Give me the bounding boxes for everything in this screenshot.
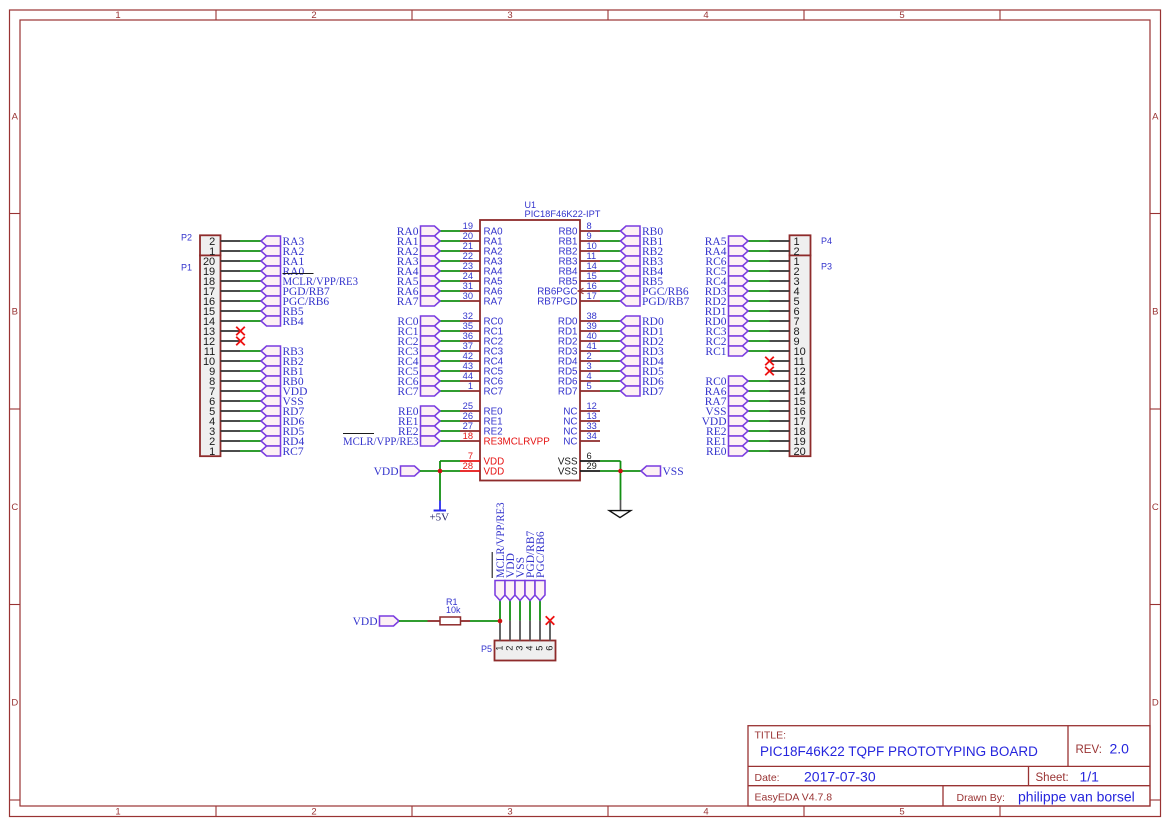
svg-text:P5: P5 <box>481 644 492 654</box>
svg-text:2: 2 <box>505 646 515 651</box>
svg-text:3: 3 <box>507 10 512 21</box>
svg-text:RA7: RA7 <box>484 297 503 308</box>
svg-text:38: 38 <box>587 311 597 321</box>
svg-text:A: A <box>1152 112 1159 123</box>
svg-text:4: 4 <box>703 10 708 21</box>
svg-text:32: 32 <box>463 311 473 321</box>
svg-text:2.0: 2.0 <box>1110 741 1130 757</box>
svg-text:41: 41 <box>587 341 597 351</box>
svg-text:34: 34 <box>587 431 597 441</box>
svg-text:Sheet:: Sheet: <box>1036 772 1069 784</box>
svg-text:6: 6 <box>545 646 555 651</box>
svg-text:2017-07-30: 2017-07-30 <box>804 769 876 785</box>
svg-text:B: B <box>1152 307 1158 318</box>
svg-text:RE3MCLRVPP: RE3MCLRVPP <box>484 437 551 448</box>
svg-text:3: 3 <box>515 646 525 651</box>
svg-text:44: 44 <box>463 371 473 381</box>
svg-text:31: 31 <box>463 281 473 291</box>
svg-text:20: 20 <box>463 231 473 241</box>
svg-text:VDD: VDD <box>374 466 399 478</box>
svg-text:29: 29 <box>587 461 597 471</box>
svg-text:RB7PGD: RB7PGD <box>537 297 577 308</box>
svg-text:PGD/RB7: PGD/RB7 <box>642 296 690 308</box>
svg-text:1: 1 <box>495 646 505 651</box>
svg-text:11: 11 <box>587 251 597 261</box>
svg-text:14: 14 <box>587 261 597 271</box>
svg-text:33: 33 <box>587 421 597 431</box>
svg-text:2: 2 <box>311 10 316 21</box>
svg-text:TITLE:: TITLE: <box>755 730 787 742</box>
svg-text:PIC18F46K22 TQPF PROTOTYPING B: PIC18F46K22 TQPF PROTOTYPING BOARD <box>760 744 1038 759</box>
svg-text:8: 8 <box>587 221 592 231</box>
svg-text:10: 10 <box>587 241 597 251</box>
svg-text:5: 5 <box>535 646 545 651</box>
svg-text:1: 1 <box>209 446 215 458</box>
svg-text:RB4: RB4 <box>283 316 304 328</box>
svg-text:B: B <box>12 307 18 318</box>
svg-text:10k: 10k <box>446 605 461 615</box>
svg-text:17: 17 <box>587 291 597 301</box>
svg-text:13: 13 <box>587 411 597 421</box>
svg-text:42: 42 <box>463 351 473 361</box>
svg-text:C: C <box>11 502 18 513</box>
svg-text:RC1: RC1 <box>705 346 726 358</box>
svg-text:philippe van borsel: philippe van borsel <box>1018 789 1135 805</box>
svg-text:VSS: VSS <box>663 466 684 478</box>
svg-text:PGC/RB6: PGC/RB6 <box>535 531 547 578</box>
svg-text:3: 3 <box>587 361 592 371</box>
svg-text:1/1: 1/1 <box>1080 769 1100 785</box>
svg-text:D: D <box>1152 698 1159 709</box>
svg-text:5: 5 <box>899 807 904 818</box>
svg-text:PIC18F46K22-IPT: PIC18F46K22-IPT <box>525 209 601 219</box>
svg-text:3: 3 <box>507 807 512 818</box>
svg-text:4: 4 <box>525 646 535 651</box>
svg-text:RC7: RC7 <box>283 446 304 458</box>
svg-text:23: 23 <box>463 261 473 271</box>
svg-text:28: 28 <box>463 461 473 471</box>
svg-text:A: A <box>12 112 19 123</box>
svg-text:P3: P3 <box>821 262 832 272</box>
svg-text:24: 24 <box>463 271 473 281</box>
svg-text:EasyEDA V4.7.8: EasyEDA V4.7.8 <box>755 792 833 804</box>
svg-text:39: 39 <box>587 321 597 331</box>
svg-text:P1: P1 <box>181 263 192 273</box>
svg-text:1: 1 <box>115 10 120 21</box>
svg-text:2: 2 <box>311 807 316 818</box>
svg-text:NC: NC <box>563 437 577 448</box>
svg-text:+5V: +5V <box>429 511 449 523</box>
svg-text:RD7: RD7 <box>558 387 578 398</box>
svg-text:36: 36 <box>463 331 473 341</box>
svg-text:RA7: RA7 <box>397 296 419 308</box>
svg-text:27: 27 <box>463 421 473 431</box>
svg-text:Drawn By:: Drawn By: <box>957 792 1005 804</box>
svg-text:6: 6 <box>587 451 592 461</box>
svg-text:1: 1 <box>115 807 120 818</box>
svg-text:5: 5 <box>587 381 592 391</box>
svg-text:RD7: RD7 <box>642 386 664 398</box>
svg-text:P4: P4 <box>821 236 832 246</box>
svg-text:16: 16 <box>587 281 597 291</box>
svg-text:MCLR/VPP/RE3: MCLR/VPP/RE3 <box>343 436 419 448</box>
svg-text:25: 25 <box>463 401 473 411</box>
svg-text:30: 30 <box>463 291 473 301</box>
svg-text:C: C <box>1152 502 1159 513</box>
svg-text:1: 1 <box>468 381 473 391</box>
svg-text:VDD: VDD <box>353 616 378 628</box>
svg-text:15: 15 <box>587 271 597 281</box>
svg-text:5: 5 <box>899 10 904 21</box>
svg-text:Date:: Date: <box>755 772 780 784</box>
svg-text:9: 9 <box>587 231 592 241</box>
svg-text:VDD: VDD <box>484 467 505 478</box>
svg-text:18: 18 <box>463 431 473 441</box>
svg-text:40: 40 <box>587 331 597 341</box>
svg-text:4: 4 <box>587 371 592 381</box>
svg-text:21: 21 <box>463 241 473 251</box>
svg-text:D: D <box>11 698 18 709</box>
svg-text:RC7: RC7 <box>484 387 504 398</box>
svg-text:RE0: RE0 <box>706 446 727 458</box>
svg-text:37: 37 <box>463 341 473 351</box>
svg-text:7: 7 <box>468 451 473 461</box>
svg-text:26: 26 <box>463 411 473 421</box>
svg-text:22: 22 <box>463 251 473 261</box>
svg-text:43: 43 <box>463 361 473 371</box>
svg-text:REV:: REV: <box>1076 744 1102 756</box>
svg-text:RC7: RC7 <box>397 386 418 398</box>
svg-text:P2: P2 <box>181 233 192 243</box>
svg-text:35: 35 <box>463 321 473 331</box>
svg-text:20: 20 <box>794 446 806 458</box>
svg-text:4: 4 <box>703 807 708 818</box>
svg-text:2: 2 <box>587 351 592 361</box>
svg-text:VSS: VSS <box>558 467 578 478</box>
svg-text:19: 19 <box>463 221 473 231</box>
svg-text:12: 12 <box>587 401 597 411</box>
